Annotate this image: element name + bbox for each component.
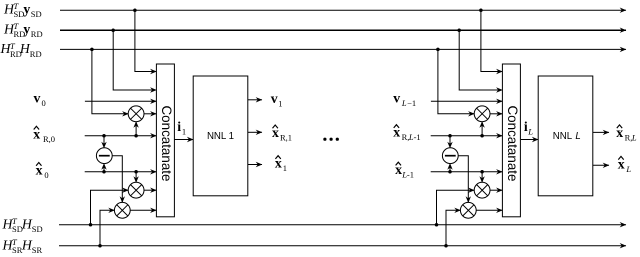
subtractor S1 A <box>96 148 112 164</box>
wire x to X2 B top <box>481 172 483 183</box>
wire bus2 to concatenate A <box>113 30 156 90</box>
wire X2 A output <box>144 189 157 191</box>
node J5 A on x_R line <box>134 134 138 138</box>
label x_L <box>618 156 632 174</box>
block Concatanate A <box>156 64 174 217</box>
node J2 A on bus2 <box>111 28 115 32</box>
svg-text:SD: SD <box>32 224 43 234</box>
label x_R,L-1 <box>393 125 420 143</box>
svg-text:SR: SR <box>32 245 43 255</box>
node J4 A on x_R line <box>102 134 106 138</box>
svg-text:i: i <box>524 119 528 134</box>
subtractor S1 B <box>442 148 458 164</box>
node J1 A on bus1 <box>133 8 137 12</box>
wire X2 B output <box>490 189 503 191</box>
wire bus1 to concatenate B <box>481 10 503 71</box>
wire x_R to X1 A bottom <box>135 122 137 136</box>
multiplier X2 A <box>128 182 144 198</box>
node J9 B on bus5 <box>444 244 448 248</box>
svg-text:RD: RD <box>30 49 42 59</box>
block Concatanate B <box>502 64 520 217</box>
svg-text:−1: −1 <box>407 98 416 108</box>
ellipsis between layers <box>323 138 339 141</box>
block NNL 1 <box>193 76 248 196</box>
wire subtractor B output to X3 <box>458 156 468 203</box>
label v_1 <box>271 91 283 109</box>
svg-text:L: L <box>625 164 631 174</box>
wire NNL1 output x_R,1 <box>248 131 262 133</box>
wire bus4 to X2 A <box>91 190 129 225</box>
svg-text:L: L <box>527 127 533 137</box>
svg-text:RD: RD <box>31 29 43 39</box>
wire x_R input line A <box>85 135 157 137</box>
node J7 B on x line <box>480 170 484 174</box>
svg-text:0: 0 <box>42 98 46 108</box>
svg-text:0: 0 <box>44 170 48 180</box>
wire X1 A output <box>144 113 157 115</box>
wire x to subtractor B <box>449 163 451 171</box>
svg-text:Concatanate: Concatanate <box>505 106 520 182</box>
svg-text:L: L <box>575 131 580 142</box>
label v_L-1 <box>393 91 416 109</box>
multiplier X2 B <box>474 182 490 198</box>
label v_0 <box>34 90 46 108</box>
wire bus5 to X3 B <box>446 210 461 245</box>
label x_R,1 <box>272 125 292 143</box>
svg-text:y: y <box>23 22 30 37</box>
node J2 B on bus2 <box>457 28 461 32</box>
svg-text:1: 1 <box>283 163 287 173</box>
label x_L-1 <box>395 162 414 180</box>
svg-text:-1: -1 <box>407 170 414 180</box>
node J6 A on x line <box>102 170 106 174</box>
wire x to X2 A top <box>135 172 137 183</box>
wire X1 B output <box>490 113 503 115</box>
wire bus1 to concatenate A <box>135 10 157 71</box>
wire bus3 to multiplier X1 A <box>92 49 128 113</box>
svg-text:R,0: R,0 <box>43 134 55 144</box>
node J3 B on bus3 <box>436 48 440 52</box>
svg-text:-1: -1 <box>414 132 421 142</box>
label H_SR^T H_SR <box>2 237 43 255</box>
svg-text:1: 1 <box>182 127 186 137</box>
multiplier X1 B <box>474 106 490 122</box>
svg-text:v: v <box>393 91 400 106</box>
wire i_L arrow <box>521 139 538 141</box>
wire bus3 to multiplier X1 B <box>438 49 475 113</box>
label x_R,0 <box>33 126 55 144</box>
node J9 A on bus5 <box>98 244 102 248</box>
node J6 B on x line <box>448 170 452 174</box>
wire bus2 to concatenate B <box>459 30 502 90</box>
wire i_1 arrow <box>174 139 193 141</box>
label H_SD^T y_SD <box>3 1 42 19</box>
node J3 A on bus3 <box>90 48 94 52</box>
wire X3 B output <box>476 209 502 211</box>
label H_SD^T H_SD <box>2 216 43 234</box>
wire bus H_RD^T H_RD (top line 3) <box>60 48 626 50</box>
multiplier X3 A <box>114 202 130 218</box>
wire bus H_SD^T H_SD (bottom line 4) <box>59 224 626 226</box>
wire X3 A output <box>130 209 156 211</box>
multiplier X1 A <box>128 106 144 122</box>
wire x_R to X1 B bottom <box>481 122 483 136</box>
svg-text:y: y <box>23 2 30 17</box>
node J5 B on x_R line <box>480 134 484 138</box>
node J1 B on bus1 <box>479 8 483 12</box>
wire x input line A <box>85 171 157 173</box>
node J8 A on bus4 <box>89 223 93 227</box>
node J7 A on x line <box>134 170 138 174</box>
svg-text:i: i <box>177 119 181 134</box>
wire bus4 to X2 B <box>437 190 475 225</box>
wire x to subtractor A <box>103 163 105 171</box>
node J8 B on bus4 <box>435 223 439 227</box>
wire bus H_SR^T H_SR (bottom line 5) <box>59 245 626 247</box>
label i_1 <box>177 119 186 137</box>
svg-text:R,1: R,1 <box>280 133 292 143</box>
multiplier X3 B <box>460 202 476 218</box>
wire v input line B <box>431 100 503 102</box>
svg-text:SD: SD <box>31 9 42 19</box>
wire bus H_RD^T y_RD (top line 2) <box>60 29 626 31</box>
wire NNL1 output x_1 <box>248 164 262 166</box>
wire x_R to subtractor B <box>449 136 451 148</box>
svg-text:Concatanate: Concatanate <box>159 106 174 182</box>
svg-text:v: v <box>34 90 41 105</box>
wire NNL1 output v_1 <box>248 99 262 101</box>
label x_R,L <box>616 125 637 143</box>
wire NNL-L output x_R,L <box>593 131 609 133</box>
node J4 B on x_R line <box>448 134 452 138</box>
svg-text:NNL: NNL <box>553 131 573 142</box>
svg-text:1: 1 <box>278 98 282 108</box>
wire x_R input line B <box>431 135 503 137</box>
wire bus H_SD^T y_SD (top line 1) <box>60 9 626 11</box>
label H_RD^T H_RD <box>0 41 42 59</box>
wire x input line B <box>431 171 503 173</box>
wire subtractor A output to X3 <box>112 156 122 203</box>
svg-text:L: L <box>631 132 637 142</box>
wire x_R to subtractor A <box>103 136 105 148</box>
wire v input line A <box>85 100 156 102</box>
label H_RD^T y_RD <box>3 21 43 39</box>
block NNL L <box>538 76 593 196</box>
label x_0 <box>36 163 49 181</box>
wire bus5 to X3 A <box>100 210 115 245</box>
wire NNL-L output x_L <box>593 164 609 166</box>
label x_1 <box>275 156 287 174</box>
svg-text:L: L <box>401 98 407 108</box>
svg-text:NNL 1: NNL 1 <box>207 131 234 142</box>
svg-text:v: v <box>271 91 278 106</box>
label i_L <box>524 119 533 137</box>
